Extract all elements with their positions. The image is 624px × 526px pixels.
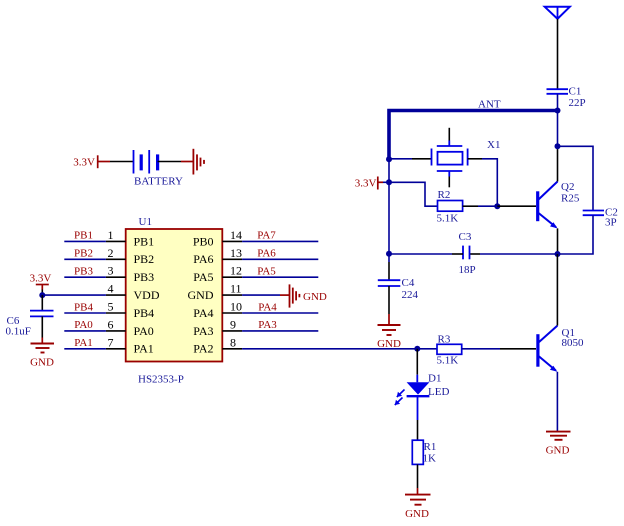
svg-text:6: 6	[108, 317, 114, 331]
wire C3 right segment	[470, 253, 558, 255]
LED D1	[395, 382, 430, 405]
svg-text:PB3: PB3	[74, 266, 93, 278]
wire R3 to Q1 base	[462, 348, 536, 350]
pin 11 GND	[222, 294, 289, 296]
svg-text:3.3V: 3.3V	[355, 177, 377, 189]
svg-text:22P: 22P	[569, 97, 586, 109]
pin 9 PA3	[222, 330, 318, 332]
svg-text:0.1uF: 0.1uF	[6, 326, 31, 338]
pin 5 PB4	[64, 312, 125, 314]
wire C1 to ANT junction	[557, 94, 559, 111]
IC U1 body	[126, 229, 223, 362]
battery BT1	[110, 150, 181, 174]
svg-text:PA6: PA6	[193, 252, 213, 266]
svg-text:PB1: PB1	[134, 234, 155, 248]
node 3.3V junction	[386, 179, 392, 185]
svg-text:GND: GND	[188, 288, 214, 302]
svg-text:ANT: ANT	[478, 99, 501, 111]
svg-text:PA0: PA0	[134, 324, 154, 338]
ground sideways (battery)	[193, 149, 204, 175]
svg-text:12: 12	[230, 264, 242, 278]
svg-text:PB4: PB4	[74, 301, 93, 313]
svg-text:10: 10	[230, 300, 242, 314]
svg-text:PB1: PB1	[74, 230, 93, 242]
svg-text:GND: GND	[546, 445, 570, 457]
svg-text:GND: GND	[30, 357, 54, 369]
pin 7 PA1	[64, 348, 125, 350]
ground below R1	[405, 495, 431, 505]
svg-text:PA3: PA3	[193, 324, 213, 338]
svg-text:R3: R3	[438, 333, 451, 345]
pin 6 PA0	[64, 330, 125, 332]
pin 1 PB1	[64, 240, 125, 242]
svg-text:2: 2	[108, 246, 114, 260]
wire Q2 emitter down	[557, 228, 559, 254]
svg-text:3P: 3P	[605, 217, 617, 229]
svg-text:PA4: PA4	[258, 301, 277, 313]
pin 14 PB0	[222, 240, 318, 242]
svg-text:U1: U1	[139, 216, 152, 228]
svg-text:PA5: PA5	[257, 266, 276, 278]
wire 3.3V junction to R2	[389, 182, 438, 206]
svg-text:BATTERY: BATTERY	[134, 175, 183, 187]
node emitter/C3 junction	[555, 251, 561, 257]
svg-text:C4: C4	[402, 277, 415, 289]
wire junction to Q2 base	[497, 205, 536, 207]
wire Q1 collector up	[556, 254, 558, 326]
svg-text:3.3V: 3.3V	[73, 157, 95, 169]
resistor R2	[438, 201, 463, 212]
pin 12 PA5	[222, 276, 318, 278]
wire ANT net thick	[389, 111, 560, 160]
svg-text:5.1K: 5.1K	[437, 212, 459, 224]
svg-text:R1: R1	[424, 441, 437, 453]
node base junction	[494, 203, 500, 209]
svg-text:VDD: VDD	[134, 288, 160, 302]
wire C2 bottom to emitter net	[558, 215, 594, 254]
svg-text:5.1K: 5.1K	[437, 354, 459, 366]
svg-text:11: 11	[230, 282, 242, 296]
svg-text:GND: GND	[405, 508, 429, 520]
svg-text:PA7: PA7	[257, 230, 276, 242]
wire 3.3V to C6 junction	[41, 290, 43, 296]
svg-text:PB2: PB2	[74, 248, 93, 260]
svg-text:PA3: PA3	[258, 319, 277, 331]
pin 8 PA2	[222, 348, 417, 350]
svg-text:4: 4	[108, 282, 114, 296]
svg-text:PA1: PA1	[74, 337, 93, 349]
svg-text:8050: 8050	[562, 337, 585, 349]
svg-text:18P: 18P	[459, 264, 476, 276]
svg-text:3.3V: 3.3V	[30, 273, 52, 285]
svg-text:LED: LED	[428, 386, 449, 398]
ground below C6	[31, 344, 55, 353]
node R3/LED junction	[414, 346, 420, 352]
wire junction to crystal left	[389, 158, 432, 160]
crystal X1	[432, 128, 468, 188]
svg-text:PA4: PA4	[193, 306, 213, 320]
wire collector junction to ANT junction	[557, 111, 559, 147]
svg-text:PB3: PB3	[134, 270, 155, 284]
wire LED to R1	[417, 396, 419, 440]
svg-text:13: 13	[230, 246, 242, 260]
antenna E1	[545, 7, 570, 19]
transistor Q2	[538, 182, 558, 229]
svg-text:HS2353-P: HS2353-P	[138, 374, 184, 386]
capacitor C3	[463, 246, 470, 260]
wire junction to C6	[41, 295, 43, 311]
node ANT junction	[555, 108, 561, 114]
wire Q2 collector up	[557, 146, 559, 181]
svg-text:Q2: Q2	[561, 181, 574, 193]
svg-text:5: 5	[108, 300, 114, 314]
wire Q1 emitter down	[556, 372, 558, 432]
svg-text:PB0: PB0	[193, 234, 214, 248]
svg-text:14: 14	[230, 228, 242, 242]
svg-text:PA0: PA0	[74, 319, 93, 331]
svg-text:PA1: PA1	[134, 342, 154, 356]
svg-text:R25: R25	[561, 192, 580, 204]
svg-text:PB4: PB4	[134, 306, 155, 320]
pin 2 PB2	[64, 258, 125, 260]
svg-text:X1: X1	[487, 139, 500, 151]
pin 4 VDD	[42, 294, 125, 296]
svg-text:224: 224	[402, 289, 419, 301]
power port 3.3V (mid)	[355, 177, 383, 190]
svg-text:PB2: PB2	[134, 252, 155, 266]
wire C6 to ground	[41, 316, 43, 343]
wire antenna lead	[557, 19, 559, 89]
svg-text:D1: D1	[428, 373, 441, 385]
wire junction to C2 top	[558, 146, 594, 210]
svg-text:C1: C1	[569, 85, 582, 97]
svg-text:GND: GND	[303, 291, 327, 303]
wire C4 to ground	[388, 286, 390, 325]
power port 3.3V (pin 4)	[30, 273, 52, 290]
capacitor C6	[30, 311, 54, 317]
svg-text:PA5: PA5	[193, 270, 213, 284]
node C3/C4 junction	[386, 251, 392, 257]
svg-text:3: 3	[108, 264, 114, 278]
ground sideways (pin 11)	[290, 284, 300, 307]
transistor Q1	[538, 326, 558, 372]
wire C3 left segment	[389, 253, 463, 255]
svg-text:PA2: PA2	[193, 342, 213, 356]
svg-text:PA6: PA6	[257, 248, 276, 260]
wire 3.3V to junction	[383, 181, 389, 183]
svg-text:9: 9	[230, 317, 236, 331]
resistor R3	[437, 344, 462, 354]
pin 3 PB3	[64, 276, 125, 278]
svg-text:1: 1	[108, 228, 114, 242]
capacitor C2	[583, 211, 604, 216]
wire vertical bus x389	[388, 159, 390, 280]
wire crystal right lead down to R2 net	[468, 159, 498, 206]
wire junction to LED	[416, 349, 418, 383]
svg-text:R2: R2	[438, 189, 451, 201]
svg-text:1K: 1K	[423, 452, 437, 464]
power port 3.3V (battery)	[73, 155, 110, 168]
resistor R1	[412, 440, 423, 464]
svg-text:8: 8	[230, 335, 236, 349]
capacitor C1	[547, 89, 569, 94]
node C6 junction	[39, 292, 45, 298]
wire R1 to ground	[417, 464, 419, 494]
pin 13 PA6	[222, 258, 318, 260]
wire battery to ground	[181, 161, 193, 163]
svg-text:C3: C3	[459, 231, 472, 243]
svg-text:7: 7	[108, 335, 114, 349]
ground below C4	[378, 325, 401, 335]
wire junction to R3	[417, 348, 437, 350]
ground below Q1	[546, 432, 571, 440]
node collector junction	[555, 143, 561, 149]
pin 10 PA4	[222, 312, 318, 314]
wire R2 to base junction	[463, 205, 498, 207]
capacitor C4	[378, 280, 401, 286]
node crystal-left junction	[386, 156, 392, 162]
